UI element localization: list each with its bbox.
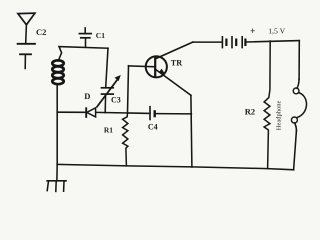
wire detector row right	[156, 113, 192, 115]
wire base branch vertical	[128, 66, 129, 113]
transistor TR	[146, 42, 193, 95]
svg-text:R1: R1	[104, 125, 113, 134]
headphone	[291, 41, 306, 170]
diode D	[86, 108, 95, 117]
wire tank left side	[56, 84, 58, 164]
capacitor C3 (variable)	[97, 75, 121, 113]
svg-text:D: D	[84, 91, 90, 101]
wire antenna stem	[25, 25, 28, 44]
capacitor C4	[150, 107, 155, 120]
svg-text:C2: C2	[36, 27, 46, 37]
svg-text:C3: C3	[111, 96, 121, 105]
wire battery row right	[246, 41, 299, 42]
svg-text:1,5 V: 1,5 V	[268, 27, 285, 36]
svg-text:TR: TR	[171, 58, 182, 67]
wire detector row middle	[96, 112, 150, 113]
capacitor C2	[18, 44, 35, 69]
svg-text:C1: C1	[96, 31, 105, 40]
svg-text:R2: R2	[245, 107, 255, 117]
battery B1	[222, 37, 245, 48]
wire emitter vertical	[191, 95, 192, 167]
svg-text:C4: C4	[148, 122, 158, 131]
svg-text:+: +	[250, 27, 255, 37]
resistor R1	[123, 113, 128, 166]
inductor L1 (coil)	[52, 60, 63, 84]
antenna	[18, 13, 35, 25]
wire tank right side	[106, 48, 108, 87]
wire bottom row	[57, 164, 293, 169]
wire tank top	[58, 47, 108, 61]
wire battery row left	[193, 41, 222, 43]
wire detector row left	[57, 111, 86, 113]
wire base lead	[129, 65, 156, 68]
capacitor C1	[79, 28, 91, 47]
ground	[47, 164, 66, 191]
svg-text:Headphone: Headphone	[276, 100, 283, 130]
resistor R2	[264, 41, 270, 169]
